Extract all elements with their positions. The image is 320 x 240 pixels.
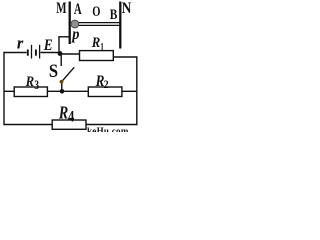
svg-text:2: 2	[104, 77, 109, 91]
svg-text:N: N	[122, 0, 132, 17]
svg-text:p: p	[71, 26, 80, 43]
svg-text:M: M	[56, 0, 66, 17]
svg-text:O: O	[92, 4, 100, 20]
svg-text:1: 1	[100, 39, 104, 53]
svg-text:R: R	[58, 103, 68, 123]
svg-text:E: E	[43, 37, 53, 54]
svg-text:3: 3	[34, 78, 39, 92]
svg-text:R: R	[91, 35, 101, 51]
svg-text:r: r	[17, 33, 24, 52]
svg-text:S: S	[49, 62, 58, 82]
svg-text:4: 4	[68, 109, 74, 126]
svg-text:R: R	[25, 74, 35, 90]
svg-text:A: A	[74, 1, 82, 18]
svg-text:B: B	[110, 7, 118, 23]
svg-text:keHu.com: keHu.com	[87, 126, 129, 132]
